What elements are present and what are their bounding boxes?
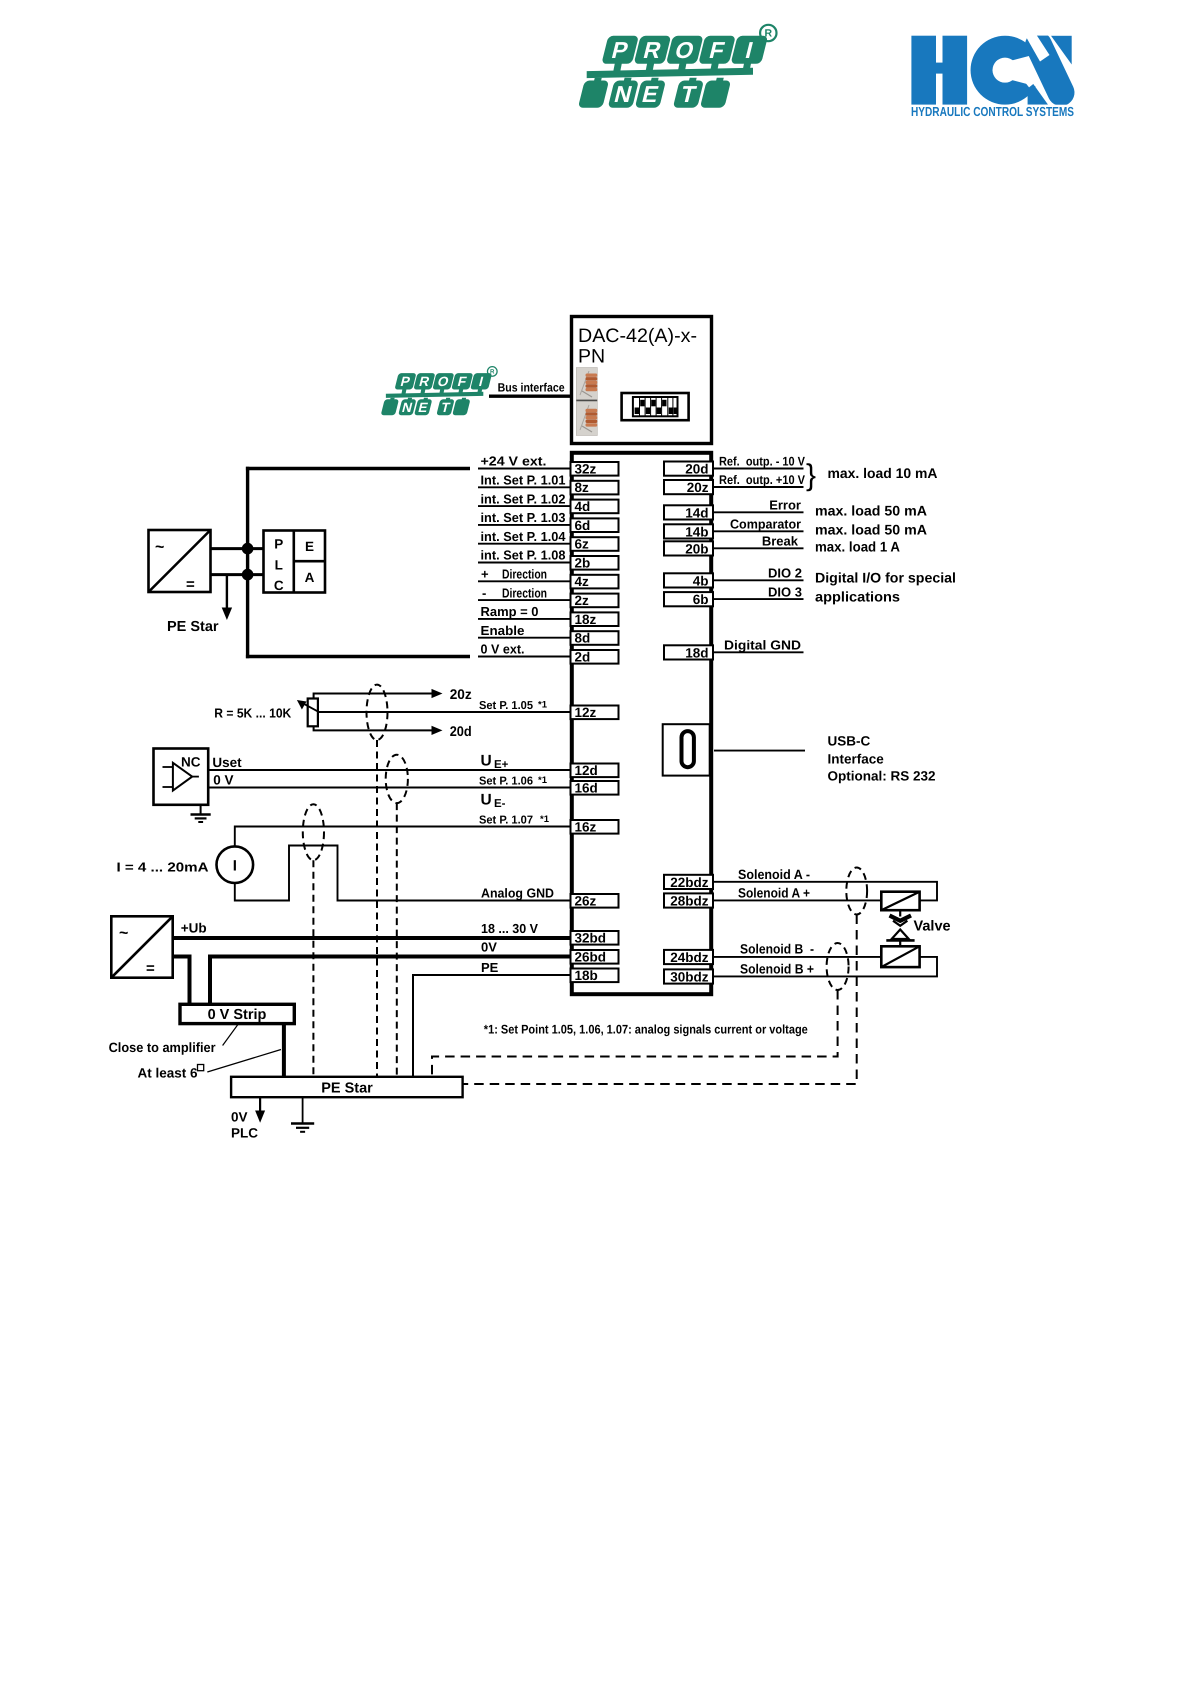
wire current source return to Analog GND pin 26z — [235, 846, 571, 901]
svg-text:+24 V ext.: +24 V ext. — [481, 454, 547, 469]
svg-text:18b: 18b — [575, 968, 598, 983]
svg-text:0V: 0V — [231, 1110, 248, 1125]
svg-text:Digital I/O for special: Digital I/O for special — [815, 570, 956, 586]
svg-text:Solenoid B -: Solenoid B - — [740, 942, 814, 957]
label At least 6 (wire gauge) — [138, 1050, 282, 1081]
terminal 0 V Strip — [180, 1004, 294, 1023]
svg-text:14b: 14b — [685, 524, 708, 539]
svg-text:Solenoid A +: Solenoid A + — [738, 886, 810, 901]
shield drain wire (Uset) — [396, 803, 398, 1077]
svg-text:*1: Set Point 1.05, 1.06, 1.07: *1: Set Point 1.05, 1.06, 1.07: analog s… — [484, 1023, 808, 1037]
wire Solenoid A + (pin 28bdz) — [713, 886, 881, 901]
wire +24V vertical riser — [246, 467, 249, 658]
junction node +24V — [242, 543, 254, 555]
pin 2d — [571, 649, 619, 664]
wire +Ub to pin 32bd (18 ... 30 V) — [173, 921, 571, 938]
shield ellipse (solenoid B pair) — [827, 943, 849, 990]
module U1 main pin-field box — [572, 453, 711, 994]
pin 8d — [571, 631, 619, 646]
svg-text:Ramp = 0: Ramp = 0 — [481, 604, 539, 619]
ground (PE Star) — [291, 1097, 314, 1132]
svg-text:Error: Error — [769, 498, 801, 513]
svg-text:max. load 1 A: max. load 1 A — [815, 539, 900, 555]
PROFINET logo (top center) — [578, 25, 777, 108]
wire to 20z (pot top) — [314, 686, 472, 702]
svg-text:20b: 20b — [685, 541, 708, 556]
svg-text:26z: 26z — [575, 893, 597, 908]
svg-text:6b: 6b — [693, 592, 709, 607]
wire PS2 0V down to 0 V Strip — [173, 957, 190, 1005]
wire DIO 3 (pin 6b) — [713, 584, 804, 599]
svg-text:22bdz: 22bdz — [670, 875, 709, 890]
svg-text:~: ~ — [155, 539, 164, 556]
wire pot wiper to pin 12z (Set P. 1.05) — [319, 700, 572, 713]
RJ45 connector jack 2 — [576, 400, 597, 435]
wire Break (pin 20b) — [713, 534, 804, 549]
wire Solenoid B + (pin 30bdz) — [713, 957, 937, 977]
svg-text:R = 5K ... 10K: R = 5K ... 10K — [214, 706, 292, 721]
pin 32z — [571, 461, 619, 476]
svg-text:-: - — [482, 585, 486, 600]
shield drain wire (current loop) — [312, 860, 314, 1077]
shield drain wire (solenoid A) — [463, 915, 857, 1085]
svg-text:PE Star: PE Star — [321, 1080, 373, 1096]
svg-text:Direction: Direction — [502, 567, 547, 582]
solenoid A — [881, 892, 919, 911]
wire / label int. Set P. 1.03 to pin — [478, 510, 571, 525]
svg-text:L: L — [275, 558, 283, 573]
HCS logo (top right) — [911, 19, 1090, 119]
wire / label int. Set P. 1.08 to pin — [478, 548, 571, 563]
label 0V PLC with arrow — [231, 1097, 265, 1140]
svg-text:E-: E- — [494, 798, 506, 810]
pin 16z — [571, 819, 619, 834]
pin 4b — [664, 573, 713, 588]
wire Error (pin 14d) — [713, 498, 804, 513]
pin 14d — [664, 505, 713, 520]
svg-text:4d: 4d — [575, 499, 591, 514]
pin 24bdz — [664, 950, 713, 965]
svg-text:*1: *1 — [538, 700, 548, 711]
wire current source to pin 16z (Set P. 1.07) — [235, 814, 571, 846]
module U1 top box DAC-42(A)-x-PN — [572, 317, 712, 444]
svg-text:I = 4 ... 20mA: I = 4 ... 20mA — [117, 860, 210, 875]
svg-text:2z: 2z — [575, 593, 590, 608]
pin 4z — [571, 574, 619, 589]
pin 8z — [571, 480, 619, 495]
svg-text:4b: 4b — [693, 573, 709, 588]
svg-text:Valve: Valve — [914, 919, 951, 935]
wire Comparator (pin 14b) — [713, 517, 804, 532]
svg-text:Set P. 1.07: Set P. 1.07 — [479, 815, 533, 827]
pin 26z — [571, 893, 619, 908]
svg-text:0 V Strip: 0 V Strip — [208, 1007, 267, 1023]
shield ellipse (pot wires) — [367, 685, 388, 740]
label USB-C Interface Optional: RS 232 — [828, 734, 936, 784]
wire Solenoid B - (pin 24bdz) — [713, 942, 881, 957]
wire / label int. Set P. 1.02 to pin — [478, 491, 571, 506]
svg-text:PE Star: PE Star — [167, 619, 219, 635]
wire / label +24 V ext. to pin — [478, 454, 571, 469]
pin 18d — [664, 645, 713, 660]
svg-text:+Ub: +Ub — [181, 921, 207, 936]
pin 12z — [571, 705, 619, 720]
wire / label Enable to pin — [478, 623, 571, 638]
USB-C connector box — [663, 724, 710, 775]
svg-text:8z: 8z — [575, 480, 590, 495]
shield ellipse (solenoid A pair) — [846, 868, 867, 915]
pin 4d — [571, 499, 619, 514]
svg-text:6z: 6z — [575, 537, 590, 552]
svg-text:28bdz: 28bdz — [670, 893, 709, 908]
svg-text:DIO 2: DIO 2 — [768, 566, 802, 581]
pin 28bdz — [664, 893, 713, 908]
svg-text:0V: 0V — [481, 940, 497, 955]
svg-text:Enable: Enable — [481, 623, 525, 638]
svg-text:0 V: 0 V — [213, 773, 233, 788]
svg-text:Comparator: Comparator — [730, 517, 801, 532]
svg-text:C: C — [274, 578, 284, 593]
shield ellipse (Uset wires) — [386, 755, 408, 803]
svg-text:Ref. outp. +10 V: Ref. outp. +10 V — [719, 473, 806, 487]
wire / label 0 V ext. to pin — [478, 642, 571, 657]
pin 30bdz — [664, 969, 713, 984]
svg-text:*1: *1 — [538, 775, 548, 786]
svg-text:Set P. 1.05: Set P. 1.05 — [479, 700, 534, 712]
svg-text:I: I — [233, 858, 237, 875]
svg-text:16d: 16d — [575, 780, 598, 795]
wire / label Int. Set P. 1.01 to pin — [478, 473, 571, 488]
DIP switch S1 — [622, 393, 689, 420]
RJ45 connector jack 1 — [576, 368, 597, 401]
current source I — [217, 846, 254, 883]
svg-text:8d: 8d — [575, 631, 591, 646]
pin 26bd — [571, 949, 619, 964]
svg-text:Break: Break — [762, 534, 799, 549]
svg-text:32z: 32z — [575, 461, 597, 476]
svg-text:Analog GND: Analog GND — [481, 886, 554, 901]
PE Star arrow (PLC supply) — [222, 575, 232, 620]
svg-text:max. load 50 mA: max. load 50 mA — [815, 522, 927, 538]
svg-text:=: = — [186, 576, 195, 593]
svg-text:20z: 20z — [687, 480, 709, 495]
svg-text:E: E — [305, 539, 314, 554]
svg-text:12d: 12d — [575, 763, 598, 778]
svg-text:applications: applications — [815, 589, 900, 605]
valve symbol — [886, 910, 914, 946]
wire / label Ramp = 0 to pin — [478, 604, 571, 619]
wire Solenoid A - (pin 22bdz) — [713, 867, 937, 900]
terminal PE Star busbar — [231, 1077, 463, 1097]
svg-text:Solenoid A -: Solenoid A - — [738, 867, 810, 882]
pin 2b — [571, 555, 619, 570]
svg-text:12z: 12z — [575, 705, 597, 720]
pin 18z — [571, 612, 619, 627]
PLC box — [264, 531, 326, 594]
label U E+ — [481, 753, 509, 772]
wire PS1 - to PLC — [211, 573, 264, 576]
svg-text:2b: 2b — [575, 555, 591, 570]
svg-text:*1: *1 — [540, 814, 550, 825]
svg-text:NC: NC — [181, 755, 201, 770]
svg-text:USB-C: USB-C — [828, 734, 871, 749]
pin 18b — [571, 968, 619, 983]
svg-text:P: P — [274, 537, 283, 552]
label Close to amplifier — [109, 1025, 238, 1056]
label U E- — [481, 792, 506, 811]
svg-text:32bd: 32bd — [575, 930, 607, 945]
svg-text:2d: 2d — [575, 649, 591, 664]
svg-text:Bus interface: Bus interface — [498, 381, 565, 395]
svg-text:0 V ext.: 0 V ext. — [481, 642, 525, 657]
wire / label + Direction to pin — [478, 567, 571, 582]
svg-text:DIO 3: DIO 3 — [768, 584, 802, 599]
svg-text:int. Set P. 1.08: int. Set P. 1.08 — [481, 548, 566, 563]
wire PS1 + to PLC — [211, 547, 264, 550]
svg-text:24bdz: 24bdz — [670, 950, 709, 965]
svg-text:max. load 50 mA: max. load 50 mA — [815, 503, 927, 519]
wire 0V strip to pin 26bd — [210, 940, 571, 1005]
svg-text:int. Set P. 1.04: int. Set P. 1.04 — [481, 529, 567, 544]
svg-text:Int. Set P. 1.01: Int. Set P. 1.01 — [481, 473, 566, 488]
svg-text:18d: 18d — [685, 645, 708, 660]
pin 22bdz — [664, 875, 713, 890]
pin 2z — [571, 593, 619, 608]
PROFINET logo (small, bus interface) — [381, 367, 497, 416]
pin 20z — [664, 480, 713, 495]
svg-text:20z: 20z — [450, 686, 472, 702]
power supply PS2 (AC/DC +Ub) — [111, 916, 172, 977]
svg-text:PE: PE — [481, 960, 499, 975]
solenoid B — [881, 946, 919, 967]
svg-text:Optional: RS 232: Optional: RS 232 — [828, 769, 936, 784]
svg-text:Direction: Direction — [502, 585, 547, 600]
pin 16d — [571, 780, 619, 795]
wire bus interface — [489, 395, 570, 398]
wire 0 V ext. feed — [246, 655, 470, 658]
svg-text:E+: E+ — [494, 759, 509, 771]
wire Ref. outp. +10 V (pin 20z) — [713, 473, 806, 487]
shield drain wire (solenoid B) — [432, 990, 838, 1077]
wire Ref. outp. -10 V (pin 20d) — [713, 455, 806, 469]
svg-text:At least 6: At least 6 — [138, 1066, 199, 1081]
svg-text:26bd: 26bd — [575, 949, 607, 964]
wire / label int. Set P. 1.04 to pin — [478, 529, 571, 544]
potentiometer R = 5K ... 10K — [297, 699, 319, 727]
svg-text:20d: 20d — [685, 462, 708, 477]
pin 6z — [571, 537, 619, 552]
svg-text:4z: 4z — [575, 574, 590, 589]
svg-text:+: + — [481, 567, 489, 582]
svg-text:Solenoid B +: Solenoid B + — [740, 962, 814, 977]
pin 20d — [664, 462, 713, 477]
svg-text:Ref. outp. - 10 V: Ref. outp. - 10 V — [719, 455, 806, 469]
wire / label - Direction to pin — [478, 585, 571, 600]
svg-text:Digital GND: Digital GND — [724, 638, 801, 653]
svg-text:A: A — [305, 570, 315, 585]
svg-text:U: U — [481, 753, 492, 770]
pin 20b — [664, 541, 713, 556]
svg-text:6d: 6d — [575, 518, 591, 533]
svg-text:18 ... 30 V: 18 ... 30 V — [481, 921, 538, 936]
svg-text:16z: 16z — [575, 819, 597, 834]
svg-text:U: U — [481, 792, 492, 809]
wire DIO 2 (pin 4b) — [713, 566, 804, 581]
svg-text:Close to amplifier: Close to amplifier — [109, 1040, 217, 1055]
svg-text:30bdz: 30bdz — [670, 969, 709, 984]
shield drain wire (pot) — [376, 740, 378, 1077]
svg-text:PN: PN — [578, 346, 605, 368]
wire to 20d (pot bottom) — [314, 723, 472, 739]
svg-text:Uset: Uset — [212, 755, 242, 770]
wire Digital GND (pin 18d) — [713, 638, 804, 653]
svg-text:PLC: PLC — [231, 1126, 258, 1141]
wire 0 V strip to PE Star (thick) — [282, 1024, 286, 1077]
svg-text:~: ~ — [119, 925, 128, 942]
svg-text:Interface: Interface — [828, 752, 885, 767]
wire 0 V to pin 16d (Set P. 1.06) — [208, 773, 571, 788]
svg-text:Set P. 1.06: Set P. 1.06 — [479, 776, 533, 788]
pin 12d — [571, 763, 619, 778]
svg-text:=: = — [146, 960, 155, 977]
svg-text:}: } — [806, 459, 816, 492]
svg-text:int. Set P. 1.02: int. Set P. 1.02 — [481, 491, 566, 506]
setpoint amplifier NC box — [154, 749, 209, 805]
svg-text:DAC-42(A)-x-: DAC-42(A)-x- — [578, 325, 697, 347]
svg-text:int. Set P. 1.03: int. Set P. 1.03 — [481, 510, 566, 525]
wire USB interface — [714, 750, 805, 752]
svg-text:20d: 20d — [450, 723, 472, 739]
shield ellipse (current loop wire) — [303, 804, 324, 860]
pin 6b — [664, 592, 713, 607]
wire PE from pin 18b to PE Star — [413, 960, 571, 1077]
wire Uset to pin 12d — [208, 755, 571, 770]
svg-text:18z: 18z — [575, 612, 597, 627]
svg-text:14d: 14d — [685, 505, 708, 520]
pin 32bd — [571, 930, 619, 945]
ground (NC amplifier) — [191, 805, 211, 822]
power supply PS1 (AC/DC) — [149, 530, 211, 593]
wire +24 V ext. feed — [246, 467, 470, 470]
pin 14b — [664, 524, 713, 539]
svg-text:max. load 10 mA: max. load 10 mA — [828, 465, 938, 481]
junction node 0V — [242, 569, 254, 581]
svg-text:HYDRAULIC CONTROL SYSTEMS: HYDRAULIC CONTROL SYSTEMS — [911, 104, 1074, 119]
pin 6d — [571, 518, 619, 533]
